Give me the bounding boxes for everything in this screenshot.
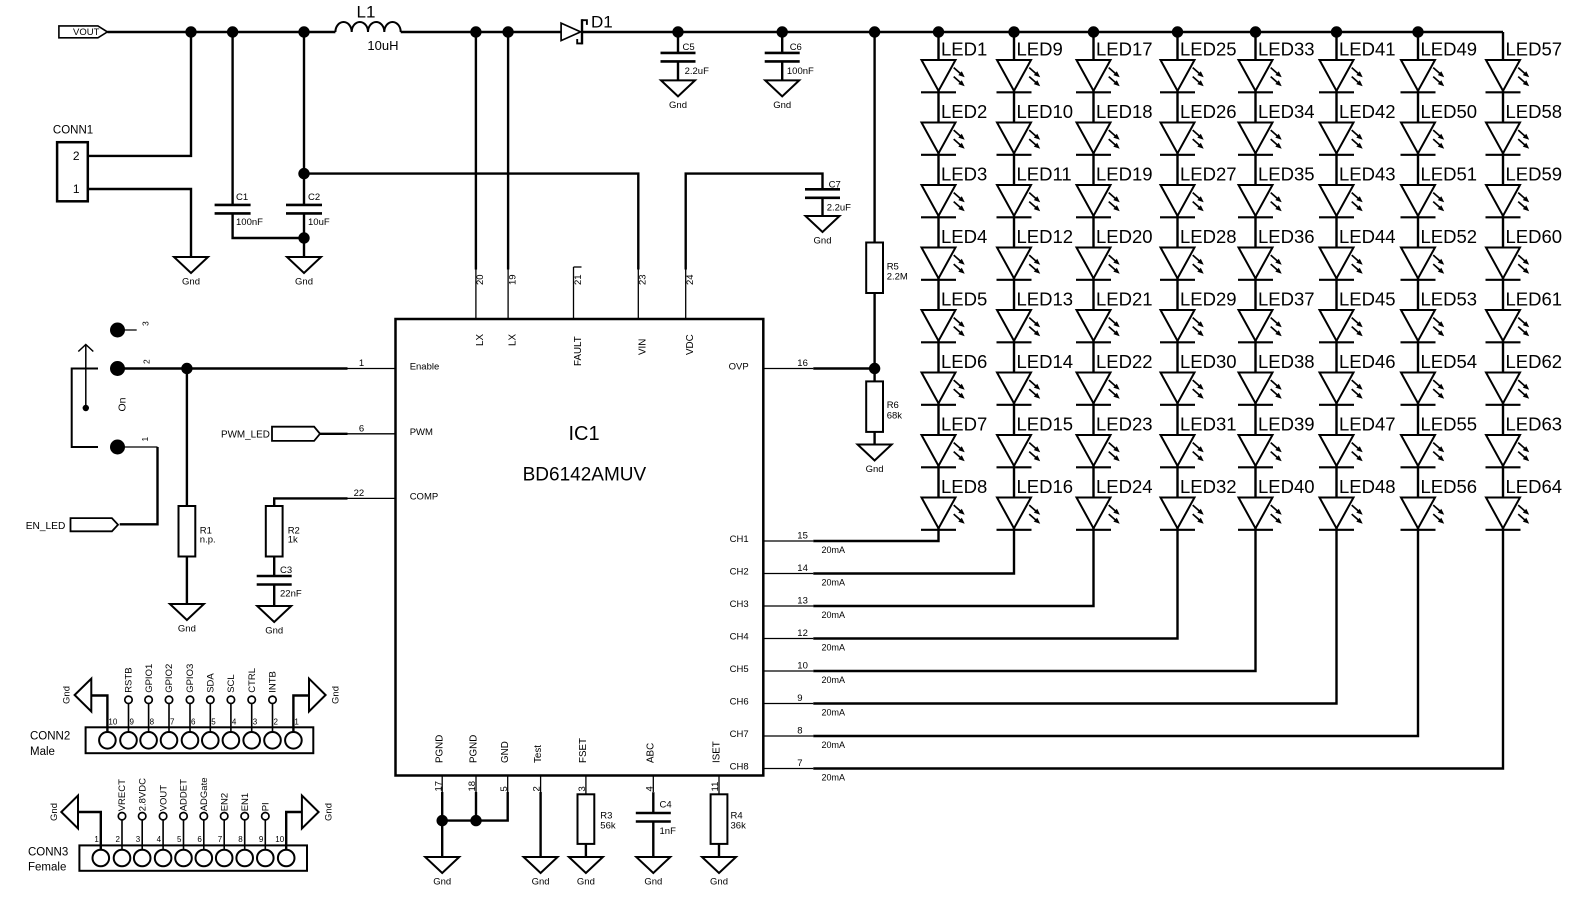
LED LED51 bbox=[1401, 163, 1478, 217]
label 20mA bbox=[822, 740, 846, 750]
wire R4 to ground bbox=[718, 844, 720, 857]
svg-text:ADDET: ADDET bbox=[179, 779, 190, 811]
resistor R4 bbox=[711, 794, 746, 844]
wire R1 to ground bbox=[186, 557, 188, 605]
junction node PGND18 bbox=[470, 815, 481, 826]
svg-text:9: 9 bbox=[259, 835, 264, 844]
LED LED21 bbox=[1076, 288, 1153, 342]
wire PWM net (tag to pin 6) bbox=[320, 433, 348, 435]
svg-text:11: 11 bbox=[710, 782, 721, 792]
svg-text:Gnd: Gnd bbox=[814, 236, 832, 247]
wire node to R6 top bbox=[873, 369, 875, 382]
LED LED57 bbox=[1486, 38, 1563, 92]
svg-text:D1: D1 bbox=[591, 12, 613, 31]
pin 19 LX bbox=[507, 270, 518, 347]
LED LED1 bbox=[921, 38, 987, 92]
LED LED8 bbox=[921, 476, 987, 530]
LED LED32 bbox=[1160, 476, 1237, 530]
svg-text:LED55: LED55 bbox=[1421, 413, 1478, 434]
wire C2 bottom to ground bbox=[303, 213, 305, 257]
junction node on rail bbox=[298, 26, 309, 37]
svg-text:Gnd: Gnd bbox=[61, 686, 72, 704]
svg-text:FSET: FSET bbox=[578, 738, 589, 763]
svg-text:C4: C4 bbox=[660, 799, 672, 810]
LED LED44 bbox=[1319, 226, 1396, 280]
LED LED42 bbox=[1319, 101, 1396, 155]
LED LED29 bbox=[1160, 288, 1237, 342]
wire CH5 net (pin to LED column 5) bbox=[813, 530, 1255, 672]
svg-text:LED25: LED25 bbox=[1180, 38, 1237, 59]
svg-text:5: 5 bbox=[499, 786, 510, 791]
wire R2 bottom to C3 bbox=[273, 557, 275, 577]
capacitor C4 bbox=[636, 799, 676, 837]
svg-text:4: 4 bbox=[232, 718, 237, 727]
svg-text:LED35: LED35 bbox=[1258, 163, 1315, 184]
wire LED column 5 (anode rail to cathode) bbox=[1254, 32, 1256, 530]
LED LED56 bbox=[1401, 476, 1478, 530]
CONN3 pin 8 contact bbox=[236, 835, 253, 866]
wire R5 to rail bbox=[873, 32, 875, 243]
LED LED33 bbox=[1238, 38, 1315, 92]
CONN3 pin 10 contact bbox=[275, 835, 294, 866]
junction node C2/VIN bbox=[298, 168, 309, 179]
svg-text:LED13: LED13 bbox=[1017, 288, 1074, 309]
wire CH3 net (pin to LED column 3) bbox=[813, 530, 1093, 607]
wire Enable net (switch to pin 1) bbox=[118, 367, 348, 369]
wire C5 to ground bbox=[677, 61, 679, 80]
LED LED52 bbox=[1401, 226, 1478, 280]
svg-text:PGND: PGND bbox=[468, 735, 479, 763]
CONN2 pin 1 contact bbox=[285, 718, 302, 749]
junction node on rail bbox=[672, 26, 683, 37]
svg-text:LED32: LED32 bbox=[1180, 476, 1237, 497]
svg-text:Gnd: Gnd bbox=[324, 803, 335, 821]
pin 14 CH2 bbox=[730, 563, 814, 578]
svg-text:GND: GND bbox=[500, 741, 511, 763]
svg-text:16: 16 bbox=[797, 358, 808, 369]
pin 7 CH8 bbox=[730, 758, 814, 773]
svg-text:PWM: PWM bbox=[410, 427, 433, 438]
CONN3 pin 9 contact bbox=[257, 835, 274, 866]
svg-text:PI: PI bbox=[261, 802, 272, 811]
label 20mA bbox=[822, 578, 846, 588]
pin 6 PWM bbox=[348, 423, 434, 438]
LED LED3 bbox=[921, 163, 987, 217]
wire top rail (D1 to LED columns) bbox=[582, 31, 1503, 33]
junction node rail/LED column bbox=[1331, 26, 1342, 37]
CONN3 pin 2 contact bbox=[114, 835, 131, 866]
svg-text:20mA: 20mA bbox=[822, 545, 846, 555]
resistor R6 bbox=[866, 381, 902, 432]
label 20mA bbox=[822, 610, 846, 620]
wire C4 to ground bbox=[652, 822, 654, 858]
LED LED26 bbox=[1160, 101, 1237, 155]
svg-text:2.2M: 2.2M bbox=[887, 272, 908, 283]
svg-text:15: 15 bbox=[797, 531, 808, 542]
svg-text:GPIO2: GPIO2 bbox=[164, 664, 175, 693]
wire CH2 net (pin to LED column 2) bbox=[813, 530, 1014, 574]
svg-text:2: 2 bbox=[73, 149, 80, 163]
wire R3 to ground bbox=[585, 844, 587, 857]
svg-text:Gnd: Gnd bbox=[182, 277, 200, 288]
svg-text:C1: C1 bbox=[236, 192, 248, 203]
svg-text:3: 3 bbox=[253, 718, 258, 727]
junction node rail/LED column bbox=[933, 26, 944, 37]
svg-text:LED14: LED14 bbox=[1017, 351, 1074, 372]
LED LED60 bbox=[1486, 226, 1563, 280]
junction node C1/C2/ground bbox=[298, 232, 309, 243]
svg-text:LED6: LED6 bbox=[941, 351, 987, 372]
LED LED7 bbox=[921, 413, 987, 467]
wire Test pin2 to ground bbox=[539, 792, 541, 857]
svg-text:Gnd: Gnd bbox=[265, 626, 283, 637]
wire CONN2 pin1 to ground bbox=[293, 696, 309, 733]
svg-text:Gnd: Gnd bbox=[773, 100, 791, 111]
svg-text:2: 2 bbox=[142, 359, 152, 364]
svg-text:VOUT: VOUT bbox=[73, 27, 100, 38]
svg-text:3: 3 bbox=[577, 786, 588, 791]
LED LED50 bbox=[1401, 101, 1478, 155]
CONN2 pin SCL bbox=[226, 674, 237, 732]
LED LED10 bbox=[997, 101, 1074, 155]
svg-text:20: 20 bbox=[475, 274, 486, 285]
svg-text:100nF: 100nF bbox=[236, 217, 263, 228]
svg-text:Gnd: Gnd bbox=[433, 877, 451, 888]
svg-text:n.p.: n.p. bbox=[200, 534, 216, 545]
svg-text:5: 5 bbox=[177, 835, 182, 844]
wire PGND pin17 to ground bbox=[441, 792, 443, 857]
pin 10 CH5 bbox=[730, 661, 814, 676]
net tag EN_LED bbox=[26, 518, 118, 532]
svg-text:C6: C6 bbox=[790, 42, 802, 53]
capacitor C3 bbox=[257, 565, 302, 600]
svg-text:LED29: LED29 bbox=[1180, 288, 1237, 309]
LED LED14 bbox=[997, 351, 1074, 405]
svg-text:LED9: LED9 bbox=[1017, 38, 1063, 59]
wire CH6 net (pin to LED column 6) bbox=[813, 530, 1336, 704]
label 20mA bbox=[822, 643, 846, 653]
ground bbox=[702, 857, 736, 888]
svg-text:LED59: LED59 bbox=[1506, 163, 1563, 184]
svg-text:LED43: LED43 bbox=[1339, 163, 1396, 184]
svg-text:LED45: LED45 bbox=[1339, 288, 1396, 309]
svg-text:2.2uF: 2.2uF bbox=[827, 203, 851, 214]
wire R6 to ground bbox=[873, 431, 875, 444]
svg-text:10uF: 10uF bbox=[308, 217, 330, 228]
wire CONN3 pin10 to ground bbox=[286, 812, 302, 850]
ground (left arrow) bbox=[61, 679, 91, 712]
svg-text:EN2: EN2 bbox=[219, 793, 230, 811]
CONN3 pin EN1 bbox=[240, 793, 251, 850]
label On bbox=[117, 397, 129, 411]
resistor R5 bbox=[866, 243, 908, 294]
LED LED5 bbox=[921, 288, 987, 342]
wire LED column 8 (anode rail to cathode) bbox=[1502, 32, 1504, 530]
pin 1 Enable bbox=[348, 358, 440, 373]
svg-text:LED18: LED18 bbox=[1096, 101, 1153, 122]
switch S1 pole 1 bbox=[110, 437, 150, 455]
CONN2 pin 3 contact bbox=[243, 718, 260, 749]
svg-text:SDA: SDA bbox=[206, 673, 217, 693]
svg-text:EN_LED: EN_LED bbox=[26, 521, 66, 532]
svg-text:LED33: LED33 bbox=[1258, 38, 1315, 59]
switch S1 pole 2 bbox=[110, 359, 152, 376]
svg-text:LED20: LED20 bbox=[1096, 226, 1153, 247]
svg-text:22nF: 22nF bbox=[280, 589, 302, 600]
svg-text:LED16: LED16 bbox=[1017, 476, 1074, 497]
wire C6 to rail bbox=[781, 32, 783, 53]
svg-text:LED53: LED53 bbox=[1421, 288, 1478, 309]
wire LX net 2 (rail to pin 19) bbox=[507, 32, 509, 270]
svg-text:LED7: LED7 bbox=[941, 413, 987, 434]
svg-text:SCL: SCL bbox=[226, 674, 237, 692]
svg-text:LED17: LED17 bbox=[1096, 38, 1153, 59]
CONN2 pin 2 contact bbox=[264, 718, 281, 749]
LED LED36 bbox=[1238, 226, 1315, 280]
svg-text:100nF: 100nF bbox=[787, 66, 814, 77]
wire R1 top riser bbox=[186, 369, 188, 507]
switch S1 bracket bbox=[72, 369, 98, 448]
svg-text:Gnd: Gnd bbox=[178, 624, 196, 635]
junction node OVP/R5/R6 bbox=[869, 363, 880, 374]
CONN3 pin 1 contact bbox=[93, 835, 110, 866]
svg-text:Female: Female bbox=[28, 862, 66, 874]
capacitor C7 bbox=[805, 179, 851, 213]
svg-text:CH6: CH6 bbox=[730, 697, 749, 708]
LED LED23 bbox=[1076, 413, 1153, 467]
pin 9 CH6 bbox=[730, 693, 814, 708]
ground (right arrow) bbox=[302, 796, 335, 829]
svg-text:LED42: LED42 bbox=[1339, 101, 1396, 122]
ground bbox=[257, 606, 291, 637]
label 20mA bbox=[822, 708, 846, 718]
svg-text:R6: R6 bbox=[887, 400, 899, 411]
svg-text:LED40: LED40 bbox=[1258, 476, 1315, 497]
wire PGND pin18 down bbox=[475, 792, 477, 821]
pin 24 VDC bbox=[685, 270, 696, 356]
CONN3 pin ADGate bbox=[199, 778, 210, 850]
LED LED9 bbox=[997, 38, 1063, 92]
CONN2 pin RSTB bbox=[124, 667, 135, 732]
wire LED column 7 (anode rail to cathode) bbox=[1417, 32, 1419, 530]
CONN3 pin 2.8VDC bbox=[137, 778, 148, 850]
svg-text:LED23: LED23 bbox=[1096, 413, 1153, 434]
svg-text:ISET: ISET bbox=[711, 741, 722, 763]
wire top rail (L1 to D1) bbox=[401, 31, 561, 33]
svg-text:LED37: LED37 bbox=[1258, 288, 1315, 309]
pin 20 LX bbox=[475, 270, 486, 347]
ground bbox=[524, 857, 558, 888]
pin 8 CH7 bbox=[730, 726, 814, 741]
capacitor C2 bbox=[286, 192, 330, 228]
svg-text:CH7: CH7 bbox=[730, 729, 749, 740]
LED LED45 bbox=[1319, 288, 1396, 342]
pin 21 FAULT bbox=[573, 267, 584, 366]
junction node rail/LED column bbox=[1008, 26, 1019, 37]
svg-text:RSTB: RSTB bbox=[124, 667, 135, 692]
svg-text:17: 17 bbox=[433, 781, 444, 792]
svg-text:10: 10 bbox=[108, 718, 117, 727]
svg-text:LED26: LED26 bbox=[1180, 101, 1237, 122]
wire LED column 1 (anode rail to cathode) bbox=[937, 32, 939, 530]
svg-text:Male: Male bbox=[30, 746, 55, 758]
ground bbox=[636, 857, 670, 888]
wire switch pos1 stub bbox=[118, 446, 158, 448]
pin 13 CH3 bbox=[730, 596, 814, 611]
ground bbox=[170, 604, 204, 635]
svg-text:1: 1 bbox=[73, 182, 80, 196]
svg-text:20mA: 20mA bbox=[822, 578, 846, 588]
LED LED11 bbox=[997, 163, 1072, 217]
svg-text:Gnd: Gnd bbox=[331, 686, 342, 704]
svg-text:LED24: LED24 bbox=[1096, 476, 1153, 497]
svg-text:24: 24 bbox=[685, 274, 696, 285]
wire CH7 net (pin to LED column 7) bbox=[813, 530, 1418, 737]
wire CONN1 pin1 to ground bbox=[88, 189, 191, 257]
pin 11 ISET bbox=[710, 741, 722, 794]
svg-text:LED3: LED3 bbox=[941, 163, 987, 184]
svg-text:8: 8 bbox=[238, 835, 243, 844]
svg-text:LED63: LED63 bbox=[1506, 413, 1563, 434]
wire C1 to rail bbox=[231, 32, 233, 205]
CONN2 pin INTB bbox=[268, 671, 279, 732]
LED LED58 bbox=[1486, 101, 1563, 155]
svg-text:13: 13 bbox=[797, 596, 808, 607]
wire C1 bottom to C2 node bbox=[233, 213, 304, 238]
CONN2 pin GPIO1 bbox=[144, 664, 155, 732]
svg-text:CONN1: CONN1 bbox=[53, 125, 93, 137]
svg-text:LED57: LED57 bbox=[1506, 38, 1563, 59]
wire VOUT top rail (left of L1) bbox=[107, 31, 335, 33]
LED LED41 bbox=[1319, 38, 1396, 92]
LED LED53 bbox=[1401, 288, 1478, 342]
wire GND pin5 to PGND node bbox=[442, 792, 508, 821]
svg-text:LED41: LED41 bbox=[1339, 38, 1396, 59]
svg-text:14: 14 bbox=[797, 563, 808, 574]
svg-text:CH8: CH8 bbox=[730, 762, 749, 773]
CONN2 pin GPIO2 bbox=[164, 664, 175, 732]
svg-text:LED4: LED4 bbox=[941, 226, 987, 247]
LED LED30 bbox=[1160, 351, 1237, 405]
LED LED19 bbox=[1076, 163, 1153, 217]
svg-text:LED27: LED27 bbox=[1180, 163, 1237, 184]
LED LED49 bbox=[1401, 38, 1478, 92]
svg-text:CH5: CH5 bbox=[730, 664, 749, 675]
svg-text:Gnd: Gnd bbox=[669, 100, 687, 111]
LED LED16 bbox=[997, 476, 1074, 530]
svg-text:2.8VDC: 2.8VDC bbox=[137, 778, 148, 811]
svg-text:5: 5 bbox=[211, 718, 216, 727]
svg-text:56k: 56k bbox=[600, 821, 616, 832]
svg-text:1: 1 bbox=[140, 437, 150, 442]
svg-text:LED50: LED50 bbox=[1421, 101, 1478, 122]
wire COMP net (R2 to pin 22) bbox=[274, 498, 347, 506]
svg-text:1: 1 bbox=[294, 718, 299, 727]
svg-text:BD6142AMUV: BD6142AMUV bbox=[523, 465, 647, 486]
wire C2 to rail bbox=[303, 32, 305, 205]
ground bbox=[569, 857, 603, 888]
capacitor C1 bbox=[215, 192, 264, 228]
svg-text:LED62: LED62 bbox=[1506, 351, 1563, 372]
svg-text:LED39: LED39 bbox=[1258, 413, 1315, 434]
wire LED column 6 (anode rail to cathode) bbox=[1335, 32, 1337, 530]
label 20mA bbox=[822, 675, 846, 685]
svg-text:LED60: LED60 bbox=[1506, 226, 1563, 247]
svg-text:22: 22 bbox=[354, 488, 365, 499]
svg-text:Enable: Enable bbox=[410, 362, 440, 373]
LED LED38 bbox=[1238, 351, 1315, 405]
LED LED27 bbox=[1160, 163, 1237, 217]
svg-text:6: 6 bbox=[359, 423, 364, 434]
svg-text:VRECT: VRECT bbox=[117, 779, 128, 811]
svg-text:LX: LX bbox=[475, 334, 486, 346]
pin 15 CH1 bbox=[730, 531, 814, 546]
pin 17 PGND bbox=[433, 735, 445, 792]
LED LED24 bbox=[1076, 476, 1153, 530]
svg-text:C7: C7 bbox=[829, 179, 841, 190]
svg-text:ADGate: ADGate bbox=[199, 778, 210, 812]
ground bbox=[806, 216, 840, 247]
svg-text:C5: C5 bbox=[683, 42, 695, 53]
CONN3 pin VOUT bbox=[158, 785, 169, 850]
CONN3 pin 3 contact bbox=[134, 835, 151, 866]
svg-text:CH2: CH2 bbox=[730, 567, 749, 578]
CONN2 pin 5 contact bbox=[202, 718, 219, 749]
ground bbox=[765, 80, 799, 111]
CONN2 pin SDA bbox=[206, 673, 217, 732]
svg-text:LED58: LED58 bbox=[1506, 101, 1563, 122]
svg-text:8: 8 bbox=[797, 726, 802, 737]
op-amp IC1 BD6142AMUV body bbox=[396, 319, 764, 776]
wire OVP net (pin16 to R5/R6) bbox=[813, 367, 874, 369]
wire C5 to rail bbox=[677, 32, 679, 53]
svg-text:3: 3 bbox=[136, 835, 141, 844]
diode D1 bbox=[561, 12, 613, 44]
svg-text:IC1: IC1 bbox=[568, 423, 599, 445]
svg-text:7: 7 bbox=[797, 758, 802, 769]
pin 5 GND bbox=[499, 741, 511, 792]
svg-text:9: 9 bbox=[130, 718, 135, 727]
svg-text:6: 6 bbox=[197, 835, 202, 844]
pin 12 CH4 bbox=[730, 628, 814, 643]
pin 3 FSET bbox=[577, 738, 589, 794]
junction node rail/LED column bbox=[1088, 26, 1099, 37]
svg-text:R5: R5 bbox=[887, 261, 899, 272]
svg-text:VOUT: VOUT bbox=[158, 785, 169, 812]
net tag PWM_LED bbox=[221, 427, 320, 441]
LED LED4 bbox=[921, 226, 987, 280]
svg-text:CONN3: CONN3 bbox=[28, 847, 68, 859]
svg-text:OVP: OVP bbox=[729, 362, 749, 373]
connector CONN2 body bbox=[30, 727, 313, 758]
LED LED62 bbox=[1486, 351, 1563, 405]
LED LED43 bbox=[1319, 163, 1396, 217]
CONN3 pin VRECT bbox=[117, 779, 128, 850]
svg-text:Gnd: Gnd bbox=[295, 277, 313, 288]
svg-text:L1: L1 bbox=[357, 3, 376, 22]
svg-text:CH1: CH1 bbox=[730, 534, 749, 545]
wire ABC pin4 to C4 bbox=[652, 792, 654, 813]
svg-text:LED22: LED22 bbox=[1096, 351, 1153, 372]
wire CONN2 pin10 to ground bbox=[91, 696, 107, 733]
svg-text:LX: LX bbox=[507, 334, 518, 346]
ground bbox=[425, 857, 459, 888]
svg-text:LED30: LED30 bbox=[1180, 351, 1237, 372]
svg-text:LED61: LED61 bbox=[1506, 288, 1563, 309]
svg-text:C2: C2 bbox=[308, 192, 320, 203]
svg-text:LED19: LED19 bbox=[1096, 163, 1153, 184]
junction node PGND17 bbox=[437, 815, 448, 826]
